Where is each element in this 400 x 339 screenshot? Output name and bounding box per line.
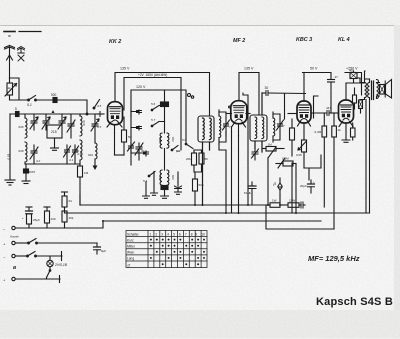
svg-text:KK 2: KK 2 bbox=[109, 39, 121, 45]
osc cap a bbox=[137, 110, 142, 114]
svg-text:6μF: 6μF bbox=[101, 249, 106, 253]
tube V3 KBC3 envelope bbox=[297, 101, 311, 123]
svg-text:447: 447 bbox=[326, 106, 331, 110]
svg-text:Lang: Lang bbox=[127, 257, 134, 261]
dial lamp bbox=[47, 260, 68, 267]
svg-text:ρ: ρ bbox=[273, 181, 277, 186]
arrow down terminal bbox=[93, 159, 98, 170]
svg-text:0.01: 0.01 bbox=[7, 153, 11, 159]
long vertical x219 down bbox=[219, 132, 226, 213]
variable cap C3 bbox=[42, 114, 50, 130]
ground row under oscillator bbox=[143, 182, 150, 198]
tube V4 KL4 envelope bbox=[339, 100, 354, 123]
junction arrow mark bbox=[52, 110, 55, 113]
V1 cathode stem bbox=[107, 122, 122, 133]
screen bypass caps bbox=[353, 88, 363, 113]
wire antenna down bbox=[9, 78, 11, 83]
svg-text:50: 50 bbox=[205, 157, 209, 161]
ground under padder bbox=[51, 138, 59, 150]
osc coil pair lower bbox=[158, 170, 175, 185]
grid cap 447 between V3 V4 bbox=[311, 106, 338, 116]
plus row y279 bbox=[3, 276, 60, 283]
det secondary coil bbox=[273, 112, 275, 142]
output transformer core bbox=[365, 80, 379, 100]
svg-text:2V/0,1B: 2V/0,1B bbox=[54, 263, 68, 267]
corner scribble marks top-left bbox=[4, 32, 41, 39]
main bus y213 bbox=[65, 211, 370, 213]
svg-text:+: + bbox=[313, 180, 315, 184]
svg-text:Kurz: Kurz bbox=[127, 238, 134, 242]
svg-text:010: 010 bbox=[82, 120, 86, 125]
left antenna coil L1 bbox=[7, 114, 11, 160]
svg-text:8: 8 bbox=[191, 232, 193, 236]
ground under L1 bbox=[5, 160, 15, 185]
trimmer C2 lower bbox=[30, 117, 41, 164]
series bead on rail bbox=[15, 107, 19, 117]
svg-text:64: 64 bbox=[69, 199, 73, 203]
grid resistor 0.3M bbox=[315, 113, 327, 207]
svg-text:w: w bbox=[8, 33, 11, 38]
oscillator coil L3a bbox=[80, 114, 86, 136]
svg-text:7: 7 bbox=[185, 232, 187, 236]
IFT2 bottom trimmers bbox=[252, 148, 259, 160]
ground stub left of blob bbox=[22, 173, 30, 184]
bus junction dots bbox=[102, 204, 297, 222]
svg-text:4.2: 4.2 bbox=[36, 159, 41, 163]
svg-text:9: 9 bbox=[195, 232, 197, 236]
AVC trimmer at x95 bbox=[91, 114, 102, 143]
HT rail 135V bbox=[115, 67, 362, 117]
resistor 40k bbox=[62, 207, 74, 228]
svg-text:4: 4 bbox=[167, 232, 169, 236]
svg-text:MF= 129,5 kHz: MF= 129,5 kHz bbox=[308, 254, 360, 263]
lamp switch bbox=[47, 267, 51, 278]
osc coil middle link bbox=[164, 149, 166, 171]
resistor 1k bbox=[332, 113, 341, 229]
V3 anode riser to 50V bbox=[303, 73, 305, 102]
svg-text:035: 035 bbox=[19, 125, 24, 129]
detector cap 51 bbox=[244, 182, 256, 205]
variable cap C4 bbox=[58, 114, 66, 129]
return wire y229 bbox=[266, 205, 334, 229]
osc coil column top blob bbox=[161, 102, 169, 133]
mixer grid resistor 20k bbox=[186, 150, 197, 165]
osc wires bbox=[131, 106, 165, 154]
osc trimmer left bbox=[128, 142, 135, 152]
svg-text:000: 000 bbox=[171, 136, 175, 141]
svg-text:Anode: Anode bbox=[9, 235, 19, 239]
screen rail 185V bbox=[124, 73, 181, 150]
long vertical x248 bbox=[243, 93, 248, 205]
svg-text:1: 1 bbox=[150, 232, 152, 236]
svg-text:000: 000 bbox=[158, 137, 162, 142]
svg-text:000: 000 bbox=[158, 175, 162, 180]
resistor R2 1M bbox=[78, 164, 89, 205]
switch 5.5 bbox=[93, 100, 101, 109]
svg-text:4.1: 4.1 bbox=[69, 158, 74, 162]
svg-text:5.7: 5.7 bbox=[151, 118, 156, 122]
IFT1 leads bbox=[203, 142, 210, 205]
switch S1 bbox=[27, 96, 36, 108]
plus row y243 bbox=[3, 239, 97, 247]
coupling cap 30 bbox=[262, 86, 306, 96]
svg-text:6: 6 bbox=[179, 232, 181, 236]
svg-text:5: 5 bbox=[173, 232, 175, 236]
AVC cap to ground bbox=[175, 178, 182, 194]
svg-text:0,3M: 0,3M bbox=[315, 130, 322, 134]
long vertical x268 bbox=[267, 162, 269, 205]
trimmer C5 bbox=[67, 114, 75, 138]
svg-text:3: 3 bbox=[161, 232, 163, 236]
svg-text:40k: 40k bbox=[69, 216, 74, 220]
svg-text:4.5: 4.5 bbox=[97, 104, 102, 108]
IFT1 trimmer arrow bbox=[219, 112, 231, 142]
wire antenna to band switch bbox=[10, 95, 29, 100]
svg-text:15W: 15W bbox=[289, 199, 295, 203]
tube V1 KK2 envelope bbox=[108, 102, 123, 125]
input cap bead bbox=[51, 93, 57, 103]
trimmer C1 bbox=[30, 114, 38, 130]
IFT2 box bbox=[250, 115, 267, 141]
svg-text:5.4: 5.4 bbox=[143, 179, 148, 183]
svg-text:4.5: 4.5 bbox=[97, 125, 102, 129]
V2 grid cap lead bbox=[226, 106, 250, 113]
trimmer pair C6 C7 bbox=[64, 145, 74, 164]
svg-text:Wien: Wien bbox=[127, 251, 134, 255]
svg-text:10: 10 bbox=[201, 232, 205, 236]
terminal blob bbox=[24, 164, 36, 174]
svg-text:135 V: 135 V bbox=[120, 67, 130, 71]
grid rail (tuning bus) bbox=[10, 113, 97, 115]
svg-text:430: 430 bbox=[51, 217, 56, 221]
osc switch 5.4 bbox=[143, 172, 155, 184]
volume pot 0.05 bbox=[296, 140, 307, 168]
hum resistor 15W bbox=[280, 199, 305, 209]
svg-text:5.8: 5.8 bbox=[182, 138, 187, 142]
grid resistor V3 bbox=[290, 119, 297, 213]
hum resistor 1W bbox=[266, 199, 280, 208]
svg-text:010: 010 bbox=[88, 153, 93, 157]
vertical from cap to det coil bbox=[272, 93, 274, 112]
svg-text:25μF: 25μF bbox=[33, 218, 40, 222]
page top fold line bbox=[0, 25, 400, 27]
minus rail y228 bbox=[3, 221, 103, 232]
riser x284 bbox=[284, 94, 286, 119]
resistor top tie bbox=[194, 150, 202, 172]
wire to input cap bbox=[36, 99, 54, 101]
svg-text:20k: 20k bbox=[186, 157, 191, 161]
screen resistor 50K to bus bbox=[193, 172, 204, 205]
long vertical V2 stem down bbox=[238, 136, 240, 213]
wire cap to coil bank top bbox=[57, 100, 87, 114]
long vertical x280 phono down bbox=[279, 196, 281, 205]
coil L4 bbox=[88, 143, 97, 159]
filter cap 25uF bbox=[22, 207, 40, 228]
oscillator unit left line bbox=[130, 110, 132, 165]
ground stub 2 bbox=[151, 172, 158, 196]
V2 anode lead / stem bbox=[232, 122, 246, 213]
cathode cap electrolytic bbox=[177, 172, 179, 178]
svg-text:+: + bbox=[22, 216, 24, 220]
svg-text:5: 5 bbox=[15, 107, 17, 111]
heater cap 6uF bbox=[94, 243, 107, 254]
svg-text:50 V: 50 V bbox=[310, 67, 318, 71]
screen feed resistor box bbox=[346, 69, 357, 84]
V4 anode riser bbox=[339, 83, 365, 127]
speaker bbox=[377, 80, 392, 99]
svg-text:KBC 3: KBC 3 bbox=[296, 37, 312, 43]
svg-text:1M: 1M bbox=[84, 171, 89, 175]
svg-text:135 V: 135 V bbox=[244, 67, 254, 71]
AVC trimmer arrow bbox=[268, 147, 276, 162]
svg-text:215: 215 bbox=[51, 130, 57, 134]
V4 anode to OT bbox=[365, 79, 370, 83]
padder box 215 bbox=[47, 125, 62, 138]
dropper resistor 430 bbox=[44, 207, 56, 228]
svg-text:030: 030 bbox=[74, 149, 79, 153]
output transformer frame bbox=[360, 71, 365, 100]
svg-text:47: 47 bbox=[335, 75, 339, 79]
svg-text:Kapsch S4S B: Kapsch S4S B bbox=[316, 296, 393, 308]
svg-text:1k: 1k bbox=[338, 128, 342, 132]
band switch table bbox=[126, 231, 207, 268]
svg-text:Mittel: Mittel bbox=[127, 245, 135, 249]
svg-text:Schalter: Schalter bbox=[127, 232, 140, 236]
phono jack bbox=[273, 178, 283, 196]
120V line bbox=[131, 85, 194, 142]
svg-text:120 V: 120 V bbox=[136, 85, 146, 89]
coil L2a bbox=[19, 114, 28, 138]
svg-text:000: 000 bbox=[171, 174, 175, 179]
svg-text:+2V 185V (Abt.MW): +2V 185V (Abt.MW) bbox=[138, 73, 167, 77]
bus y221 bbox=[103, 220, 321, 222]
coil bank ground bus bbox=[25, 163, 80, 165]
svg-text:1M: 1M bbox=[268, 143, 273, 147]
osc coil pair upper bbox=[158, 133, 175, 148]
antenna 2 (short) bbox=[18, 47, 25, 62]
svg-text:KL 4: KL 4 bbox=[338, 37, 350, 43]
V1 cathode resistor 50k bbox=[122, 117, 132, 155]
cathode caps 20uF bbox=[300, 180, 315, 193]
tube V2 MF2 envelope bbox=[231, 101, 247, 124]
svg-text:1W: 1W bbox=[272, 199, 277, 203]
osc coil bottom blob bbox=[161, 186, 169, 199]
osc switch 5.9 bbox=[171, 146, 180, 154]
svg-text:4607: 4607 bbox=[29, 170, 36, 174]
osc switch 5.7 bbox=[151, 118, 159, 127]
coil L2b bbox=[19, 142, 28, 164]
page bottom edge bbox=[0, 310, 400, 339]
IFT2 leads bbox=[255, 93, 262, 152]
ground bus y205 bbox=[80, 204, 266, 206]
page right edge bbox=[394, 25, 400, 310]
osc cap b bbox=[137, 126, 142, 130]
antenna 1 bbox=[5, 46, 15, 79]
svg-text:30: 30 bbox=[265, 86, 269, 90]
IFT1 box bbox=[198, 116, 214, 142]
V1 bypass trimmer bbox=[115, 133, 145, 160]
IFT1 secondary coil + trimmer bbox=[219, 110, 221, 144]
resistor 64 bbox=[62, 192, 73, 207]
det trimmer arrow bbox=[273, 114, 285, 140]
oscillator coil L3b bbox=[74, 140, 82, 164]
svg-text:030: 030 bbox=[19, 149, 24, 153]
svg-text:MF 2: MF 2 bbox=[233, 38, 245, 44]
branch wire to switch 2 bbox=[10, 78, 20, 100]
svg-text:0,05: 0,05 bbox=[296, 153, 302, 157]
svg-text:500: 500 bbox=[51, 93, 57, 97]
oscillator feed corner bbox=[79, 195, 81, 205]
V4 cathode stem + resistor bbox=[342, 123, 355, 142]
pot return corner bbox=[304, 155, 321, 180]
AVC resistor 1M horizontal bbox=[262, 143, 284, 152]
minus row y256 bbox=[3, 252, 62, 261]
grid stopper link to V1 bbox=[97, 112, 104, 117]
coupling cap 47 top bbox=[328, 75, 339, 113]
speaker leads down bbox=[357, 78, 370, 213]
svg-text:2: 2 bbox=[155, 232, 157, 236]
osc cap c bbox=[144, 151, 149, 156]
osc switch 5.6 bbox=[151, 102, 159, 111]
svg-text:5.1: 5.1 bbox=[27, 103, 32, 107]
svg-text:5.6: 5.6 bbox=[151, 102, 156, 106]
svg-text:μa: μa bbox=[175, 149, 180, 153]
svg-text:20μF: 20μF bbox=[300, 184, 307, 188]
pot R-ant 15k (variable) bbox=[5, 83, 17, 96]
osc grid resistor 50 bbox=[199, 150, 208, 164]
resistor 0.1M box bbox=[276, 157, 296, 169]
switch 5.8 bbox=[178, 138, 193, 150]
long vertical x292 down bbox=[291, 163, 293, 213]
V3 stem bbox=[298, 121, 311, 140]
